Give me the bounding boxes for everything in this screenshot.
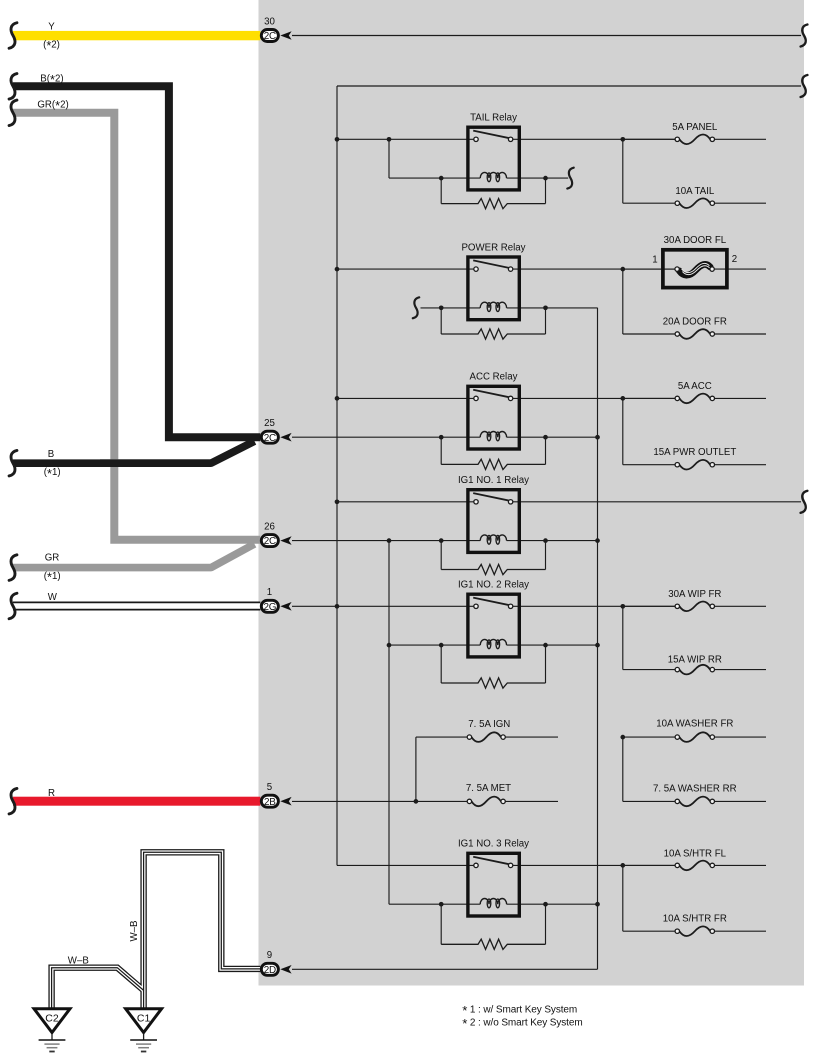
svg-text:TAIL Relay: TAIL Relay	[470, 113, 517, 124]
svg-text:W–B: W–B	[68, 955, 89, 966]
svg-text:10A TAIL: 10A TAIL	[675, 186, 715, 197]
svg-text:B: B	[48, 449, 54, 460]
svg-text:2C: 2C	[264, 31, 276, 42]
svg-text:(*2): (*2)	[43, 38, 60, 53]
svg-text:POWER Relay: POWER Relay	[461, 242, 525, 253]
svg-text:C2: C2	[45, 1012, 59, 1024]
svg-text:IG1 NO. 1 Relay: IG1 NO. 1 Relay	[458, 475, 529, 486]
svg-text:* 1 : w/ Smart Key System: * 1 : w/ Smart Key System	[462, 1003, 577, 1018]
svg-text:20A DOOR FR: 20A DOOR FR	[663, 317, 727, 328]
svg-text:2: 2	[732, 254, 737, 265]
svg-text:10A S/HTR FR: 10A S/HTR FR	[663, 914, 727, 925]
svg-text:1: 1	[652, 255, 657, 266]
svg-text:7. 5A IGN: 7. 5A IGN	[468, 719, 510, 730]
svg-text:IG1 NO. 2 Relay: IG1 NO. 2 Relay	[458, 580, 529, 591]
svg-text:(*1): (*1)	[44, 570, 61, 585]
svg-text:10A WASHER FR: 10A WASHER FR	[656, 718, 733, 729]
svg-text:IG1 NO. 3 Relay: IG1 NO. 3 Relay	[458, 839, 529, 850]
svg-text:W: W	[48, 592, 58, 603]
svg-text:5A PANEL: 5A PANEL	[672, 122, 718, 133]
svg-text:1: 1	[267, 587, 272, 598]
svg-text:2G: 2G	[264, 602, 277, 613]
svg-text:2C: 2C	[264, 433, 276, 444]
svg-text:15A WIP RR: 15A WIP RR	[668, 654, 722, 665]
svg-text:7. 5A MET: 7. 5A MET	[466, 783, 511, 794]
svg-text:9: 9	[267, 950, 272, 961]
svg-text:2C: 2C	[264, 536, 276, 547]
svg-text:* 2 : w/o Smart Key System: * 2 : w/o Smart Key System	[462, 1016, 582, 1031]
svg-text:R: R	[48, 788, 55, 799]
svg-text:30: 30	[264, 16, 275, 27]
svg-text:5A ACC: 5A ACC	[678, 381, 712, 392]
svg-text:ACC Relay: ACC Relay	[470, 372, 518, 383]
svg-text:C1: C1	[137, 1012, 151, 1024]
svg-text:(*1): (*1)	[44, 466, 61, 481]
svg-text:7. 5A WASHER RR: 7. 5A WASHER RR	[653, 784, 737, 795]
svg-text:25: 25	[264, 418, 275, 429]
svg-text:5: 5	[267, 782, 272, 793]
svg-text:2B: 2B	[264, 797, 276, 808]
svg-text:GR: GR	[45, 552, 60, 563]
svg-text:2D: 2D	[264, 965, 276, 976]
svg-text:W–B: W–B	[129, 921, 140, 942]
svg-text:30A DOOR FL: 30A DOOR FL	[664, 235, 727, 246]
svg-text:15A PWR OUTLET: 15A PWR OUTLET	[653, 447, 736, 458]
svg-text:10A S/HTR FL: 10A S/HTR FL	[664, 848, 727, 859]
svg-text:Y: Y	[48, 22, 55, 33]
svg-text:30A WIP FR: 30A WIP FR	[668, 589, 721, 600]
svg-text:26: 26	[264, 521, 275, 532]
